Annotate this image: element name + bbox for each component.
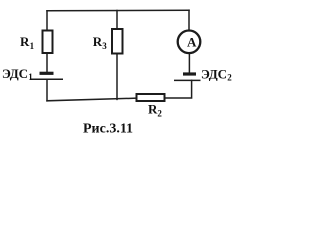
wire left branch between R1 and EMF1 [46, 54, 48, 72]
svg-text:ЭДС: ЭДС [2, 66, 28, 81]
battery EMF1 short thick plate [40, 72, 54, 75]
resistor R2 [137, 94, 165, 101]
resistor R1 [43, 31, 53, 54]
svg-text:1: 1 [30, 41, 35, 51]
wire EMF2 to ammeter [188, 54, 190, 73]
wire middle branch upper [116, 11, 118, 29]
wire middle branch lower [116, 55, 118, 100]
wire left branch lower [46, 79, 48, 101]
ammeter U1 circle [178, 31, 201, 54]
wire left branch upper [46, 11, 48, 30]
wire right branch upper [188, 10, 190, 29]
resistor R3 [112, 29, 123, 54]
svg-text:2: 2 [157, 108, 162, 118]
svg-text:2: 2 [227, 72, 232, 82]
wire bottom rail [47, 98, 136, 101]
svg-text:1: 1 [28, 72, 33, 82]
svg-text:R: R [20, 34, 30, 49]
battery EMF2 short thick plate [183, 72, 196, 75]
svg-text:A: A [187, 34, 197, 49]
battery EMF1 long thin plate [30, 78, 63, 80]
wire R2 right to EMF2 [166, 80, 192, 98]
wire top rail [47, 9, 189, 12]
battery EMF2 long thin plate [174, 79, 201, 81]
svg-text:3: 3 [102, 41, 107, 51]
svg-text:Рис.3.11: Рис.3.11 [83, 122, 133, 137]
svg-text:ЭДС: ЭДС [201, 66, 227, 81]
